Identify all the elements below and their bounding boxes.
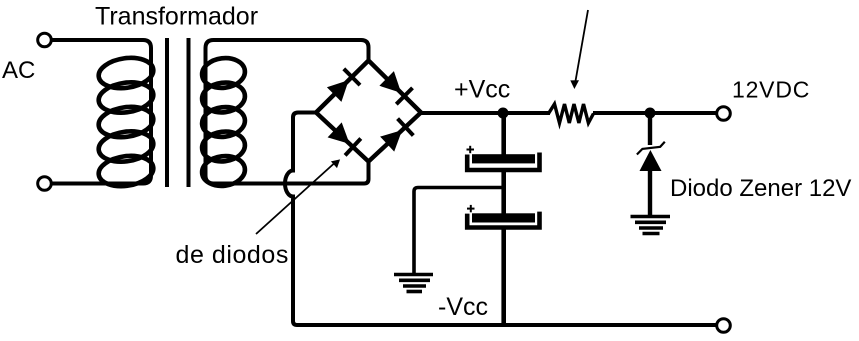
transformer T1 secondary winding — [200, 56, 246, 189]
capacitor C2 negative bracket — [467, 212, 539, 228]
wire primary loop (transformer T1 primary connections) — [52, 40, 151, 184]
wire zener to ground — [648, 171, 652, 216]
ground (zener) — [631, 217, 671, 234]
node +Vcc junction dot — [498, 108, 509, 119]
annotation arrow to resistor — [570, 10, 588, 89]
resistor R1 — [549, 104, 594, 123]
diode bridge diamond wires — [316, 61, 421, 162]
terminal bottom output — [717, 319, 731, 333]
transformer T1 primary winding — [97, 55, 156, 190]
svg-text:de diodos: de diodos — [176, 241, 289, 269]
capacitor C2 plus sign — [467, 205, 475, 212]
AC terminal top — [38, 33, 52, 47]
svg-text:-Vcc: -Vcc — [438, 293, 488, 321]
annotation arrow to bridge — [256, 159, 340, 234]
diode D1 (left-top arm) — [327, 69, 360, 102]
wire secondary loop (to bridge top and bottom vertices) — [206, 40, 369, 184]
svg-text:+Vcc: +Vcc — [454, 76, 510, 104]
capacitor C1 positive plate — [472, 154, 535, 163]
capacitor C1 plus sign — [467, 146, 475, 153]
wire between capacitors — [501, 169, 506, 214]
zener diode DZ1 anode triangle — [640, 150, 662, 171]
wire +Vcc rail (bridge + output to resistor) — [421, 111, 550, 115]
node output junction dot — [645, 108, 656, 119]
diode D2 (top-right arm) — [379, 71, 412, 104]
wire zener branch from output node — [648, 113, 652, 145]
diode D4 (bottom-right arm) — [380, 119, 413, 152]
zener diode DZ1 cathode bar — [637, 142, 665, 155]
wire +Vcc node down to capacitors — [501, 113, 506, 155]
svg-text:Transformador: Transformador — [95, 3, 258, 31]
diode D3 (left-bottom arm) — [328, 122, 361, 155]
AC terminal bottom — [38, 177, 52, 191]
svg-text:12VDC: 12VDC — [732, 77, 810, 103]
svg-text:Diodo Zener 12V: Diodo Zener 12V — [670, 175, 851, 202]
svg-text:AC: AC — [2, 57, 35, 84]
wire capacitor C2 to bottom rail — [501, 228, 506, 328]
capacitor C1 negative bracket — [467, 153, 539, 171]
wire midpoint branch to ground — [414, 188, 504, 275]
capacitor C2 positive plate — [472, 213, 535, 222]
wire bridge negative to bottom rail with hop over secondary — [285, 113, 716, 326]
transformer T1 core — [165, 38, 169, 187]
terminal 12VDC output — [717, 107, 731, 121]
ground (capacitor midpoint) — [394, 275, 433, 292]
wire resistor to output — [593, 111, 716, 115]
